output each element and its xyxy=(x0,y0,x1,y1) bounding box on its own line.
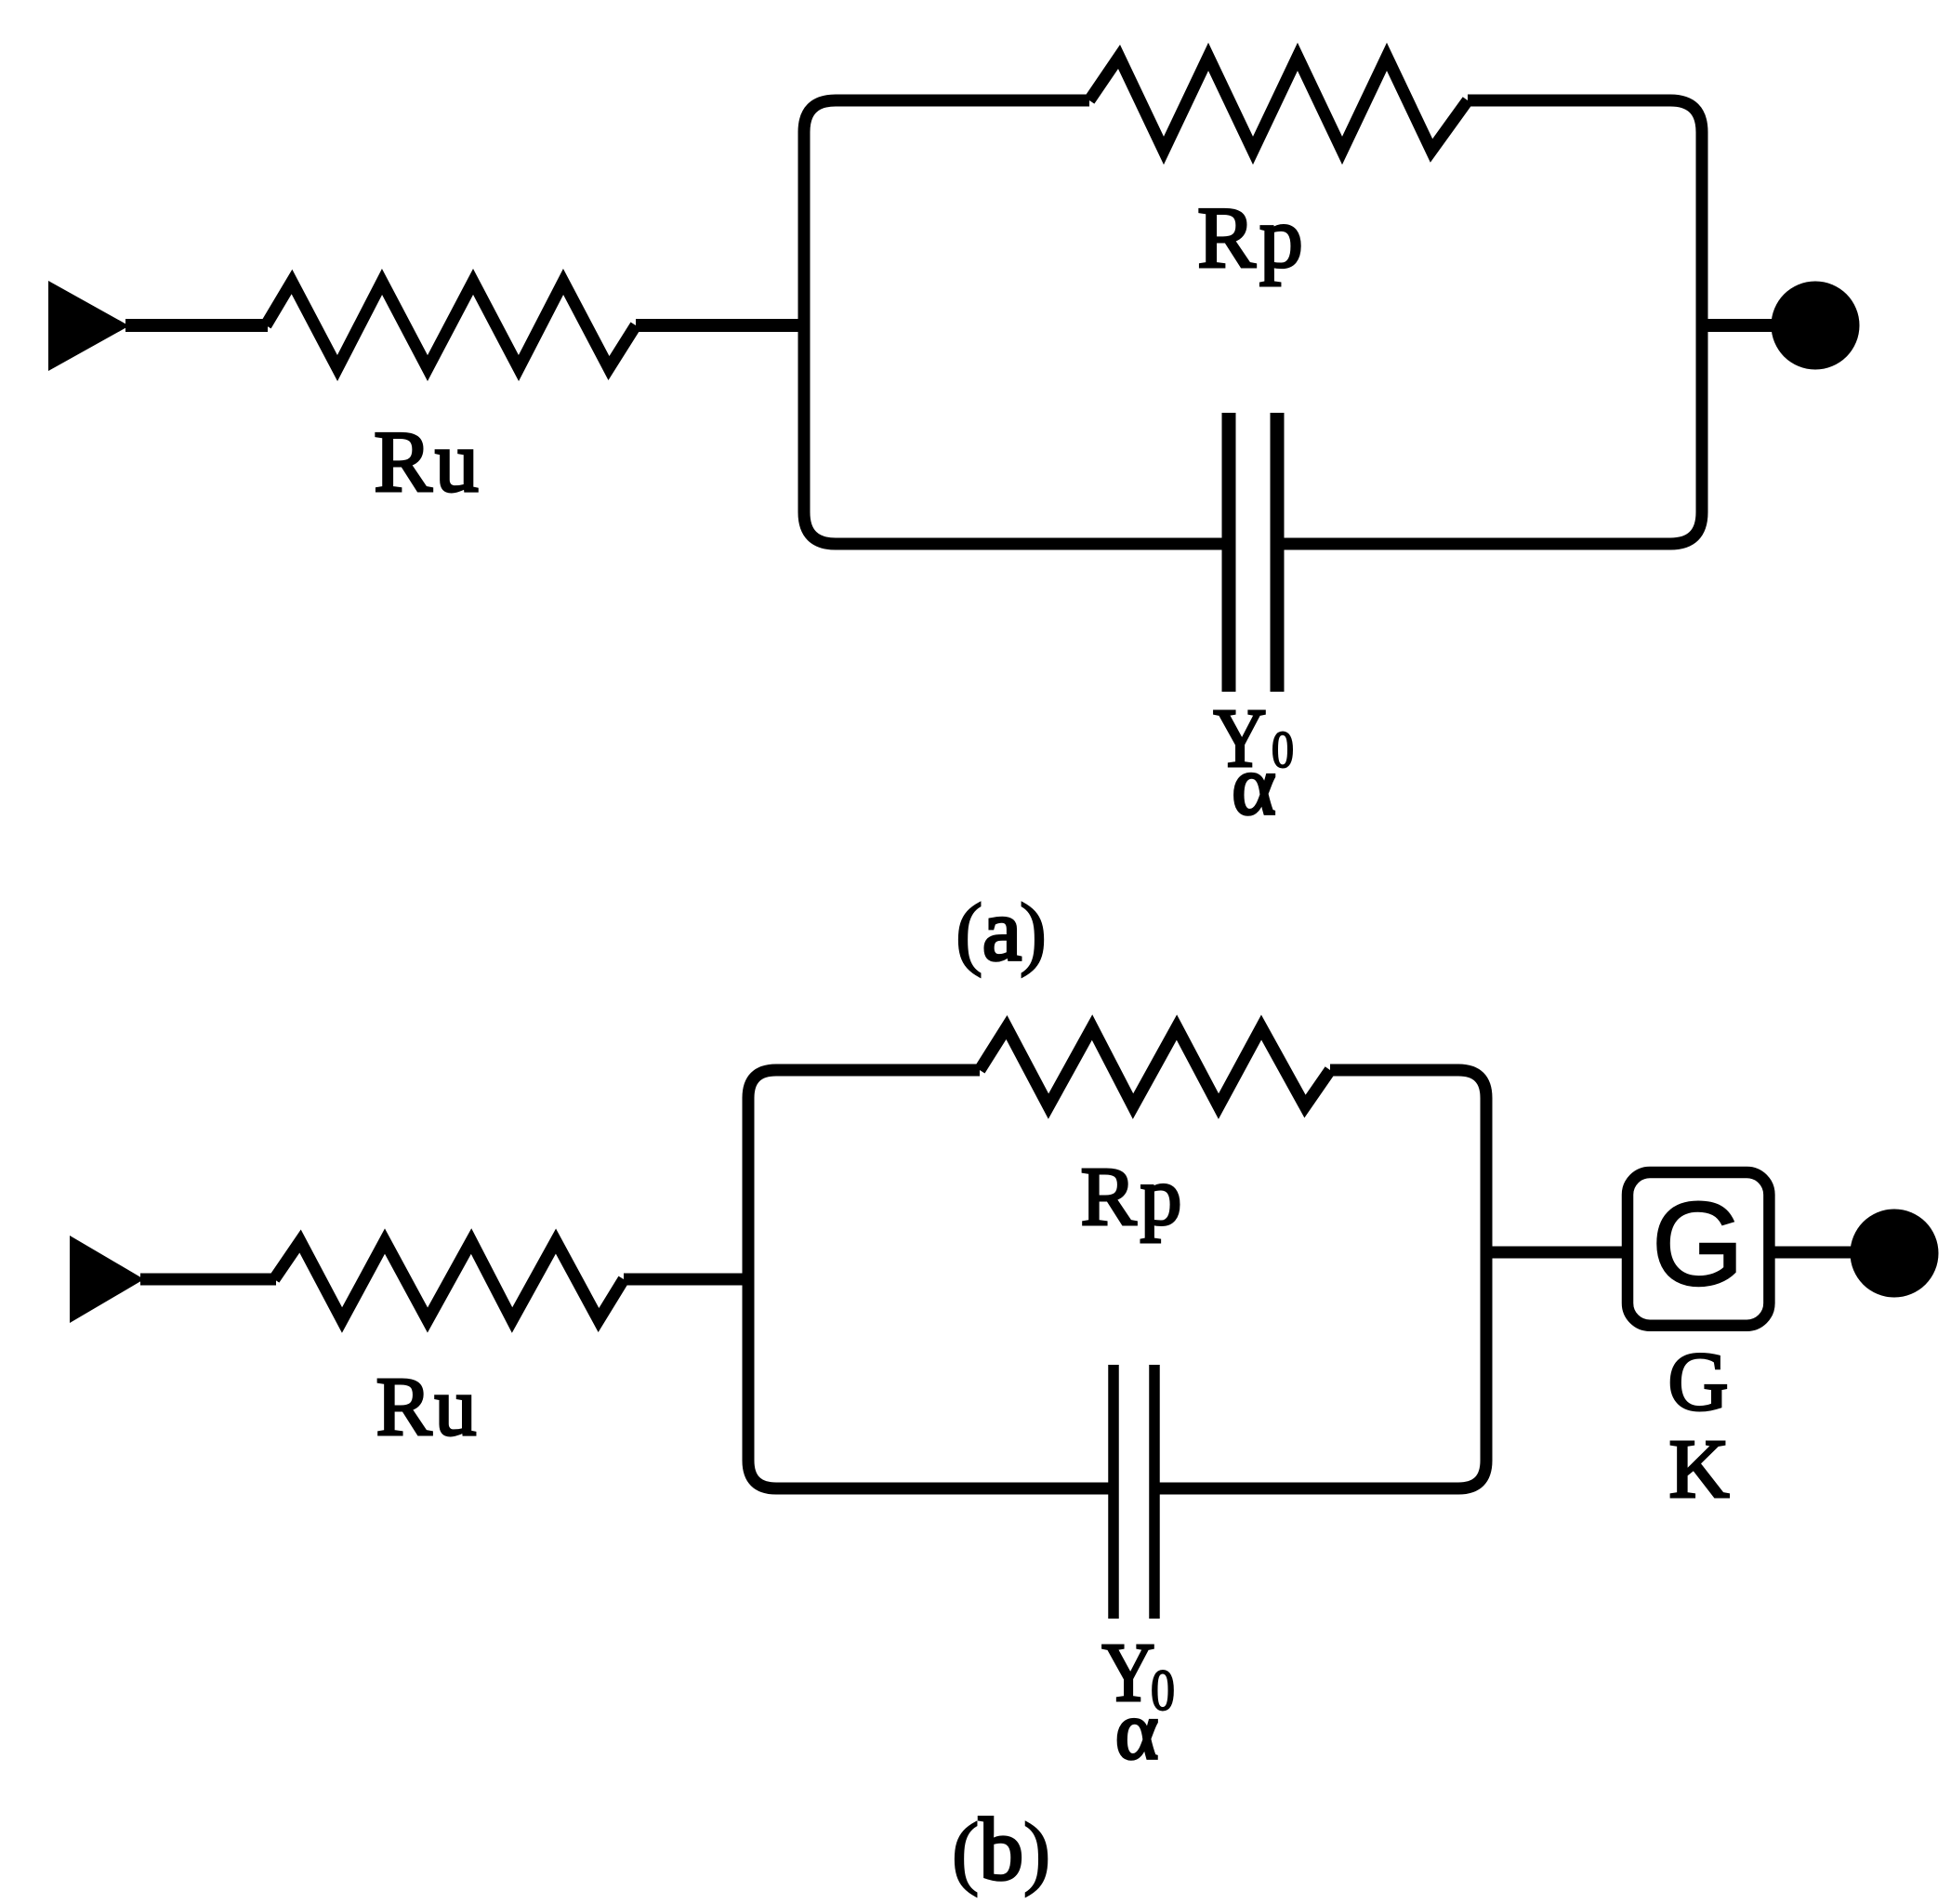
wire (b) input to Ru xyxy=(140,1274,276,1286)
capacitor CPE plate right (a) xyxy=(1271,413,1285,692)
resistor Rp (a) xyxy=(1089,57,1468,151)
resistor Ru (b) xyxy=(274,1241,624,1320)
capacitor CPE plate left (b) xyxy=(1108,1365,1119,1619)
parallel loop box (b) left/bottom part xyxy=(748,1070,1114,1488)
terminal dot (a) xyxy=(1772,282,1860,370)
parallel loop box (a) left/bottom part xyxy=(804,100,1230,544)
svg-text:Ru: Ru xyxy=(374,414,481,510)
capacitor CPE plate right (b) xyxy=(1149,1365,1160,1619)
wire (a) input to Ru xyxy=(125,319,268,332)
svg-text:Ru: Ru xyxy=(376,1361,479,1453)
svg-text:α: α xyxy=(1232,740,1275,832)
svg-text:a: a xyxy=(982,880,1022,979)
svg-text:): ) xyxy=(1020,888,1047,978)
parallel loop box (a) right/bottom part xyxy=(1276,100,1702,544)
capacitor CPE plate left (a) xyxy=(1222,413,1236,692)
wire (b) node to Gerischer element xyxy=(1486,1247,1628,1259)
svg-text:Rp: Rp xyxy=(1080,1151,1185,1243)
svg-text:(: ( xyxy=(956,888,982,978)
svg-text:K: K xyxy=(1669,1423,1730,1515)
input terminal triangle (a) xyxy=(48,281,129,371)
svg-text:G: G xyxy=(1668,1336,1729,1428)
wire (a) Ru to node xyxy=(636,319,805,332)
parallel loop box (b) right/bottom part xyxy=(1153,1070,1486,1488)
svg-text:Rp: Rp xyxy=(1197,190,1307,286)
svg-text:G: G xyxy=(1652,1178,1744,1310)
resistor Ru (a) xyxy=(266,282,636,368)
wire (a) node to terminal xyxy=(1702,319,1774,332)
svg-text:(: ( xyxy=(952,1807,979,1897)
input terminal triangle (b) xyxy=(70,1236,144,1323)
resistor Rp (b) xyxy=(980,1027,1330,1106)
wire (b) Ru to node xyxy=(624,1274,750,1286)
Gerischer element box G xyxy=(1628,1172,1769,1326)
svg-text:b: b xyxy=(979,1800,1023,1898)
svg-text:α: α xyxy=(1115,1686,1158,1777)
svg-text:): ) xyxy=(1023,1807,1050,1897)
terminal dot (b) xyxy=(1851,1210,1939,1298)
wire (b) Gerischer to terminal xyxy=(1774,1247,1854,1259)
